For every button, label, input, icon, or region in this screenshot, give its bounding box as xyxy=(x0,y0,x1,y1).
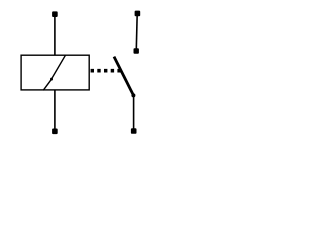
pivot dot xyxy=(131,93,135,97)
fixed contact dot xyxy=(134,48,139,53)
junction dot on diagonal xyxy=(50,78,53,81)
relay coil K1 (box) xyxy=(21,55,89,90)
wire (top-left vertical) xyxy=(54,14,56,55)
wire (bottom-left vertical) xyxy=(54,90,56,131)
wire (bottom-right vertical) xyxy=(133,95,135,131)
node A (top-left terminal dot) xyxy=(52,11,58,17)
node C (top-right terminal dot) xyxy=(135,11,141,17)
node D (bottom-right terminal dot) xyxy=(131,128,137,134)
mechanical link (dashed) xyxy=(91,69,121,73)
coil diagonal stroke xyxy=(43,55,65,90)
switch lever S1 xyxy=(114,57,133,96)
node B (bottom-left terminal dot) xyxy=(52,129,58,135)
wire (top-right vertical) xyxy=(135,13,138,49)
